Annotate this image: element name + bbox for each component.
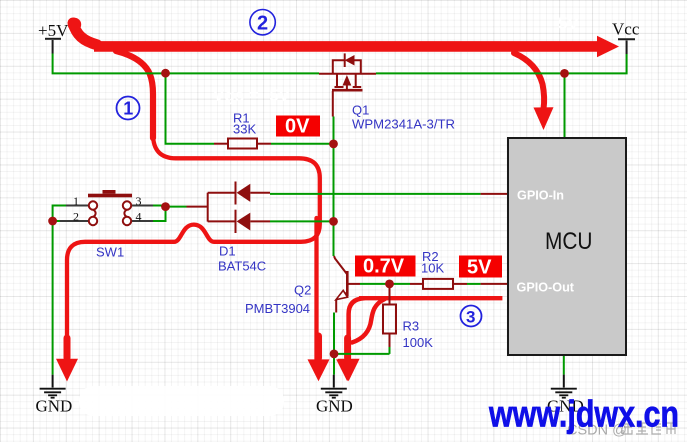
svg-text:3: 3: [466, 308, 475, 327]
svg-text:www.jdwx.cn: www.jdwx.cn: [488, 394, 679, 435]
svg-text:GPIO-Out: GPIO-Out: [517, 280, 575, 294]
svg-text:GPIO-In: GPIO-In: [517, 188, 564, 202]
svg-text:GND: GND: [316, 397, 353, 416]
svg-text:5V: 5V: [467, 257, 492, 279]
svg-text:Q2: Q2: [294, 283, 311, 298]
svg-text:5V: 5V: [558, 14, 579, 33]
svg-text:GND: GND: [36, 397, 73, 416]
svg-text:1: 1: [123, 99, 133, 119]
svg-text:10K: 10K: [421, 261, 444, 276]
svg-text:3: 3: [136, 194, 142, 208]
svg-text:2: 2: [257, 13, 268, 35]
svg-text:100K: 100K: [403, 335, 434, 350]
svg-text:PMBT3904: PMBT3904: [245, 301, 310, 316]
svg-text:BAT54C: BAT54C: [218, 259, 266, 274]
svg-text:+5V: +5V: [38, 21, 69, 40]
svg-text:D1: D1: [219, 244, 236, 259]
svg-text:Vcc: Vcc: [612, 20, 640, 39]
svg-text:1: 1: [73, 194, 79, 208]
svg-text:WPM2341A-3/TR: WPM2341A-3/TR: [352, 117, 455, 132]
svg-text:MCU: MCU: [545, 228, 593, 255]
svg-text:R3: R3: [403, 319, 420, 334]
svg-text:Q1: Q1: [352, 103, 369, 118]
svg-text:Vgs = -5V: Vgs = -5V: [213, 86, 291, 105]
svg-text:0.7V: 0.7V: [363, 256, 405, 278]
svg-text:SW1: SW1: [96, 245, 124, 260]
svg-text:0V: 0V: [285, 116, 310, 138]
svg-text:2: 2: [73, 210, 79, 224]
svg-text:33K: 33K: [233, 122, 256, 137]
svg-text:4: 4: [136, 210, 142, 224]
